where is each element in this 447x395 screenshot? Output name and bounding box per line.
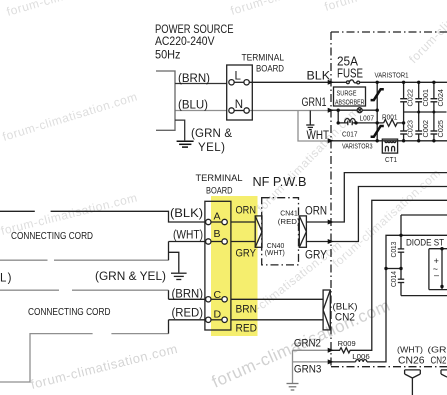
svg-text:TERMINAL: TERMINAL bbox=[196, 173, 243, 183]
svg-text:C001: C001 bbox=[423, 89, 430, 107]
svg-text:B: B bbox=[214, 228, 221, 240]
svg-text:C024: C024 bbox=[438, 89, 445, 107]
svg-text:(BLU): (BLU) bbox=[178, 100, 208, 112]
svg-text:R001: R001 bbox=[382, 113, 398, 122]
svg-text:L: L bbox=[235, 71, 242, 83]
svg-text:WHT: WHT bbox=[307, 130, 330, 142]
svg-text:TERMINAL: TERMINAL bbox=[242, 53, 285, 63]
svg-text:CT1: CT1 bbox=[385, 155, 397, 164]
svg-text:C025: C025 bbox=[438, 120, 445, 138]
svg-text:50Hz: 50Hz bbox=[155, 48, 181, 62]
svg-text:SURGE: SURGE bbox=[337, 89, 357, 98]
svg-text:AC220-240V: AC220-240V bbox=[155, 34, 215, 48]
svg-text:CONNECTING CORD: CONNECTING CORD bbox=[28, 306, 111, 318]
svg-text:NF P.W.B: NF P.W.B bbox=[253, 174, 307, 189]
svg-text:CN26: CN26 bbox=[398, 355, 425, 367]
svg-text:D: D bbox=[214, 308, 222, 320]
svg-text:YEL): YEL) bbox=[198, 142, 225, 154]
svg-text:GRY: GRY bbox=[305, 250, 327, 262]
svg-text:BOARD: BOARD bbox=[256, 64, 284, 74]
svg-text:DIODE ST: DIODE ST bbox=[406, 238, 444, 248]
svg-text:ORN: ORN bbox=[305, 206, 327, 218]
svg-text:ABSORBER: ABSORBER bbox=[335, 98, 365, 107]
svg-text:C022: C022 bbox=[408, 89, 415, 107]
svg-text:GRN2: GRN2 bbox=[294, 338, 321, 350]
svg-text:RED: RED bbox=[236, 323, 258, 335]
svg-text:BLK: BLK bbox=[307, 71, 331, 83]
svg-text:CN2: CN2 bbox=[335, 312, 355, 324]
svg-text:(BRN): (BRN) bbox=[178, 73, 210, 85]
svg-text:CN2: CN2 bbox=[431, 355, 447, 367]
svg-text:VARISTOR3: VARISTOR3 bbox=[342, 142, 373, 151]
svg-text:(GR: (GR bbox=[428, 345, 447, 355]
svg-text:C: C bbox=[214, 289, 222, 301]
svg-text:(RED): (RED) bbox=[172, 308, 204, 320]
svg-text:L): L) bbox=[0, 273, 12, 285]
svg-text:C014: C014 bbox=[391, 271, 398, 287]
svg-text:(BLK): (BLK) bbox=[170, 208, 203, 220]
svg-text:FUSE: FUSE bbox=[337, 67, 363, 81]
svg-text:A: A bbox=[214, 211, 221, 223]
svg-text:(WHT): (WHT) bbox=[265, 248, 285, 257]
svg-text:–: – bbox=[434, 270, 439, 280]
svg-text:ORN: ORN bbox=[236, 205, 257, 217]
svg-text:(BRN): (BRN) bbox=[172, 289, 204, 301]
svg-text:C017: C017 bbox=[342, 130, 358, 139]
svg-text:GRN1: GRN1 bbox=[302, 97, 327, 109]
svg-text:L007: L007 bbox=[360, 114, 375, 123]
svg-text:VARISTOR1: VARISTOR1 bbox=[375, 71, 409, 80]
svg-text:(GRN & YEL): (GRN & YEL) bbox=[95, 271, 166, 283]
svg-text:(WHT): (WHT) bbox=[173, 230, 203, 242]
svg-text:R009: R009 bbox=[338, 339, 356, 348]
svg-text:(RED): (RED) bbox=[278, 217, 300, 226]
svg-text:BOARD: BOARD bbox=[206, 186, 233, 196]
svg-text:CONNECTING CORD: CONNECTING CORD bbox=[11, 230, 93, 242]
svg-text:BRN: BRN bbox=[236, 304, 258, 316]
svg-text:L006: L006 bbox=[352, 352, 370, 361]
svg-text:(WHT): (WHT) bbox=[397, 345, 423, 355]
svg-text:(GRN &: (GRN & bbox=[191, 128, 232, 140]
svg-text:C002: C002 bbox=[423, 120, 430, 138]
svg-text:GRY: GRY bbox=[236, 248, 257, 260]
svg-text:GRN3: GRN3 bbox=[294, 364, 322, 376]
svg-text:N: N bbox=[235, 99, 243, 111]
svg-text:C013: C013 bbox=[391, 241, 398, 257]
svg-text:C023: C023 bbox=[408, 120, 415, 138]
